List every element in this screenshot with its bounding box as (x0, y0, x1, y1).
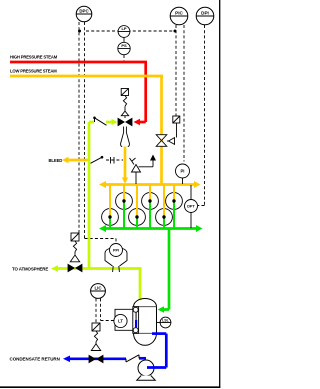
svg-text:LP: LP (121, 26, 126, 31)
svg-text:PPI: PPI (113, 249, 119, 253)
svg-text:PI: PI (181, 169, 185, 174)
svg-text:LOW PRESSURE STEAM: LOW PRESSURE STEAM (10, 69, 57, 74)
svg-text:DPC: DPC (79, 9, 89, 14)
svg-text:LSL: LSL (162, 318, 170, 322)
svg-text:BLEED: BLEED (49, 158, 63, 163)
svg-text:LT: LT (118, 319, 123, 324)
svg-text:CONDENSATE RETURN: CONDENSATE RETURN (10, 357, 60, 362)
svg-text:LIC: LIC (94, 286, 102, 291)
svg-text:PS: PS (121, 43, 127, 48)
svg-text:TO ATMOSPHERE: TO ATMOSPHERE (12, 266, 48, 271)
svg-text:DPT: DPT (187, 205, 195, 209)
svg-text:DPI: DPI (201, 10, 209, 15)
svg-text:PIC: PIC (175, 10, 183, 15)
svg-text:HIGH PRESSURE STEAM: HIGH PRESSURE STEAM (10, 55, 58, 60)
